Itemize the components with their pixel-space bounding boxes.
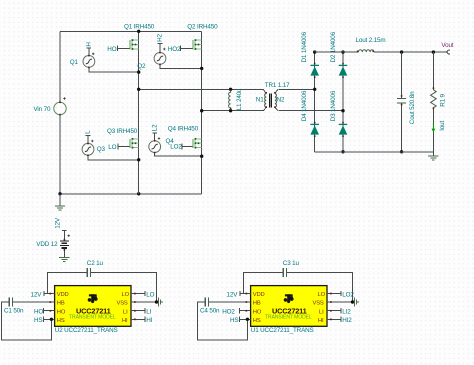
capacitor C4 50n: [198, 298, 248, 340]
source Q2 gate drive H2: [154, 33, 202, 68]
svg-text:N2: N2: [277, 96, 285, 103]
node leg A top: [137, 30, 140, 33]
svg-text:HI: HI: [146, 317, 152, 324]
svg-text:LI2: LI2: [342, 309, 351, 316]
node U2 HS junction: [50, 318, 53, 321]
diode D4 1N4006: [301, 90, 319, 134]
pin U2 HI with HI jumper: [131, 317, 153, 325]
wire left rail lower: [59, 115, 61, 194]
capacitor Cout 520.8n: [397, 52, 416, 152]
svg-text:HO: HO: [253, 309, 262, 315]
pin U1 HI with HI2 jumper: [327, 317, 352, 325]
resistor R1 9: [431, 52, 447, 152]
pin U1 VSS wire: [327, 301, 353, 303]
svg-text:TRANSIENT MODEL: TRANSIENT MODEL: [265, 315, 312, 321]
svg-text:TR1 1.17: TR1 1.17: [265, 82, 290, 89]
ground U1 VSS: [355, 298, 359, 307]
pin U2 VDD with 12V jumper: [31, 291, 55, 299]
svg-text:Vin 70: Vin 70: [34, 106, 51, 113]
node Q3 source at bottom rail: [137, 192, 140, 195]
svg-text:Lout 2.15m: Lout 2.15m: [356, 37, 386, 44]
svg-text:LO: LO: [146, 291, 154, 298]
wire secondary bottom: [278, 110, 343, 112]
node Cout top: [400, 50, 403, 53]
diode D3 1N4006: [330, 90, 347, 134]
battery VDD 12: [36, 217, 70, 261]
node L1 top: [229, 88, 232, 91]
node Q1 drive junction: [137, 70, 140, 73]
svg-text:HO2: HO2: [222, 309, 235, 316]
svg-text:LO: LO: [122, 292, 130, 298]
wire top rail: [60, 30, 202, 32]
wire primary top rail: [139, 89, 267, 93]
wire left rail upper: [59, 31, 61, 102]
svg-text:C1 50n: C1 50n: [4, 307, 24, 314]
svg-text:HI: HI: [318, 318, 324, 324]
svg-text:HO: HO: [107, 46, 116, 53]
svg-text:VDD 12: VDD 12: [36, 241, 58, 248]
ground main: [55, 194, 65, 210]
svg-text:LI: LI: [146, 309, 151, 316]
label U2: [55, 327, 118, 334]
node Cout bottom: [400, 150, 403, 153]
svg-text:HO: HO: [57, 309, 66, 315]
wire output top rail: [315, 51, 447, 53]
svg-text:HS: HS: [230, 317, 238, 324]
source Q3 gate drive L: [82, 130, 139, 160]
diode D2 1N4006: [330, 31, 347, 75]
source Q4 gate drive L2: [149, 124, 202, 156]
svg-text:HO2: HO2: [168, 46, 181, 53]
capacitor C1 50n: [2, 298, 52, 340]
svg-text:Q4: Q4: [166, 138, 175, 145]
svg-text:H2: H2: [157, 33, 164, 41]
svg-text:L2: L2: [151, 124, 158, 131]
pin U2 HB wire: [12, 301, 54, 303]
svg-text:HS: HS: [57, 318, 65, 324]
node bridge right top: [341, 50, 344, 53]
svg-text:Q1: Q1: [70, 59, 79, 66]
wire leg B: [201, 31, 203, 194]
svg-text:HI2: HI2: [342, 317, 352, 324]
transistor Q4 IRH450: [168, 126, 202, 151]
svg-text:HS: HS: [253, 318, 261, 324]
svg-text:HB: HB: [253, 301, 261, 307]
svg-text:D2 1N4006: D2 1N4006: [330, 31, 337, 62]
pin ticks: [230, 51, 434, 138]
pin U2 LO with LO jumper: [131, 291, 155, 299]
capacitor C2 1u: [47, 260, 156, 302]
svg-text:LI: LI: [319, 309, 324, 315]
svg-text:C2 1u: C2 1u: [87, 260, 104, 267]
source Vin 70: [34, 97, 67, 115]
wire leg A: [138, 31, 140, 194]
pin U2 HS with HS jumper: [34, 317, 55, 325]
node R1 top: [432, 50, 435, 53]
svg-text:LO2: LO2: [342, 291, 354, 298]
svg-text:LI: LI: [123, 309, 128, 315]
pin U2 HO with HO jumper: [34, 308, 55, 316]
wire bridge left leg: [314, 52, 316, 152]
node bridge right mid: [341, 109, 344, 112]
pin U1 VDD with 12V jumper: [227, 291, 251, 299]
IC U1 UCC27211: [251, 286, 327, 327]
wire output bottom rail: [315, 151, 434, 153]
svg-text:H: H: [86, 42, 93, 47]
svg-text:HB: HB: [57, 301, 65, 307]
svg-text:Q1 IRH450: Q1 IRH450: [124, 23, 155, 30]
inductor L1 240u: [229, 88, 243, 111]
svg-text:U2 UCC27211_TRANS: U2 UCC27211_TRANS: [55, 327, 118, 334]
svg-text:C4 50n: C4 50n: [200, 307, 220, 314]
svg-text:HS: HS: [34, 317, 42, 324]
svg-text:TRANSIENT MODEL: TRANSIENT MODEL: [69, 315, 116, 321]
transistor Q3 IRH450: [107, 128, 139, 151]
svg-text:D4 1N4006: D4 1N4006: [301, 90, 308, 121]
svg-text:N1: N1: [256, 96, 264, 103]
svg-text:U1 UCC27211_TRANS: U1 UCC27211_TRANS: [251, 327, 314, 334]
svg-text:VDD: VDD: [57, 292, 69, 298]
svg-text:D3 1N4006: D3 1N4006: [330, 90, 337, 121]
svg-text:HI: HI: [122, 318, 128, 324]
pin U1 HB wire: [208, 301, 250, 303]
ground output: [428, 152, 438, 160]
node leg B primary: [200, 109, 203, 112]
svg-text:VDD: VDD: [253, 292, 265, 298]
pin U1 LO with LO2 jumper: [327, 291, 354, 299]
pin U2 VSS wire: [131, 301, 157, 303]
node left-bottom: [58, 192, 61, 195]
svg-text:Q3: Q3: [97, 146, 106, 153]
svg-text:Cout 520.8n: Cout 520.8n: [409, 91, 416, 124]
transistor Q1 IRH450: [107, 23, 154, 53]
node U1 HS junction: [246, 318, 249, 321]
node bridge left mid: [313, 88, 316, 91]
capacitor C3 1u: [243, 260, 352, 302]
wire primary bottom rail: [202, 107, 267, 110]
svg-text:VSS: VSS: [117, 301, 128, 307]
wire bottom rail: [60, 193, 202, 195]
node L1 bottom: [229, 109, 232, 112]
node Q3 drive junction: [137, 158, 140, 161]
transistor Q2 IRH450: [168, 23, 218, 53]
node U2 VSS junction: [155, 300, 158, 303]
ground U2 VSS: [159, 298, 163, 307]
svg-text:C3 1u: C3 1u: [283, 260, 300, 267]
svg-text:R1 9: R1 9: [440, 93, 447, 106]
svg-text:D1 1N4006: D1 1N4006: [301, 31, 308, 62]
pin U2 LI with LI jumper: [131, 308, 152, 316]
node label Q2: [137, 63, 146, 70]
current probe Iout: [432, 120, 446, 132]
svg-text:Q2 IRH450: Q2 IRH450: [187, 23, 218, 30]
node bridge right bottom: [341, 150, 344, 153]
svg-text:Q4 IRH450: Q4 IRH450: [168, 126, 199, 133]
svg-text:L: L: [85, 130, 92, 134]
inductor Lout 2.15m: [356, 37, 386, 52]
source Q1 gate drive H: [70, 42, 139, 73]
svg-text:12V: 12V: [31, 291, 43, 298]
IC U2 UCC27211: [55, 286, 131, 327]
pin U1 HS with HS jumper: [230, 317, 251, 325]
label U1: [251, 327, 314, 334]
pin U1 LI with LI2 jumper: [327, 308, 351, 316]
svg-text:VSS: VSS: [313, 301, 324, 307]
pin Vout: [441, 42, 453, 54]
svg-text:12V: 12V: [227, 291, 239, 298]
wire bridge right leg: [342, 52, 344, 152]
svg-text:Vout: Vout: [441, 42, 453, 49]
node Q4 drive junction: [200, 155, 203, 158]
svg-text:Iout: Iout: [439, 120, 446, 130]
transformer TR1 1.17: [256, 82, 290, 111]
node leg A primary: [137, 88, 140, 91]
svg-text:Q3 IRH450: Q3 IRH450: [107, 128, 138, 135]
node U1 VSS junction: [351, 300, 354, 303]
pin U1 HO with HO2 jumper: [222, 308, 250, 316]
svg-text:12V: 12V: [55, 217, 62, 229]
svg-text:LO: LO: [108, 144, 116, 151]
svg-text:Q2: Q2: [137, 63, 146, 70]
node Q2 drive junction: [200, 67, 203, 70]
svg-text:L1 240u: L1 240u: [236, 88, 243, 110]
node bridge left top: [313, 50, 316, 53]
svg-text:LO: LO: [318, 292, 326, 298]
diode D1 1N4006: [301, 31, 319, 75]
svg-text:HO: HO: [34, 309, 43, 316]
wire secondary top: [278, 88, 314, 90]
